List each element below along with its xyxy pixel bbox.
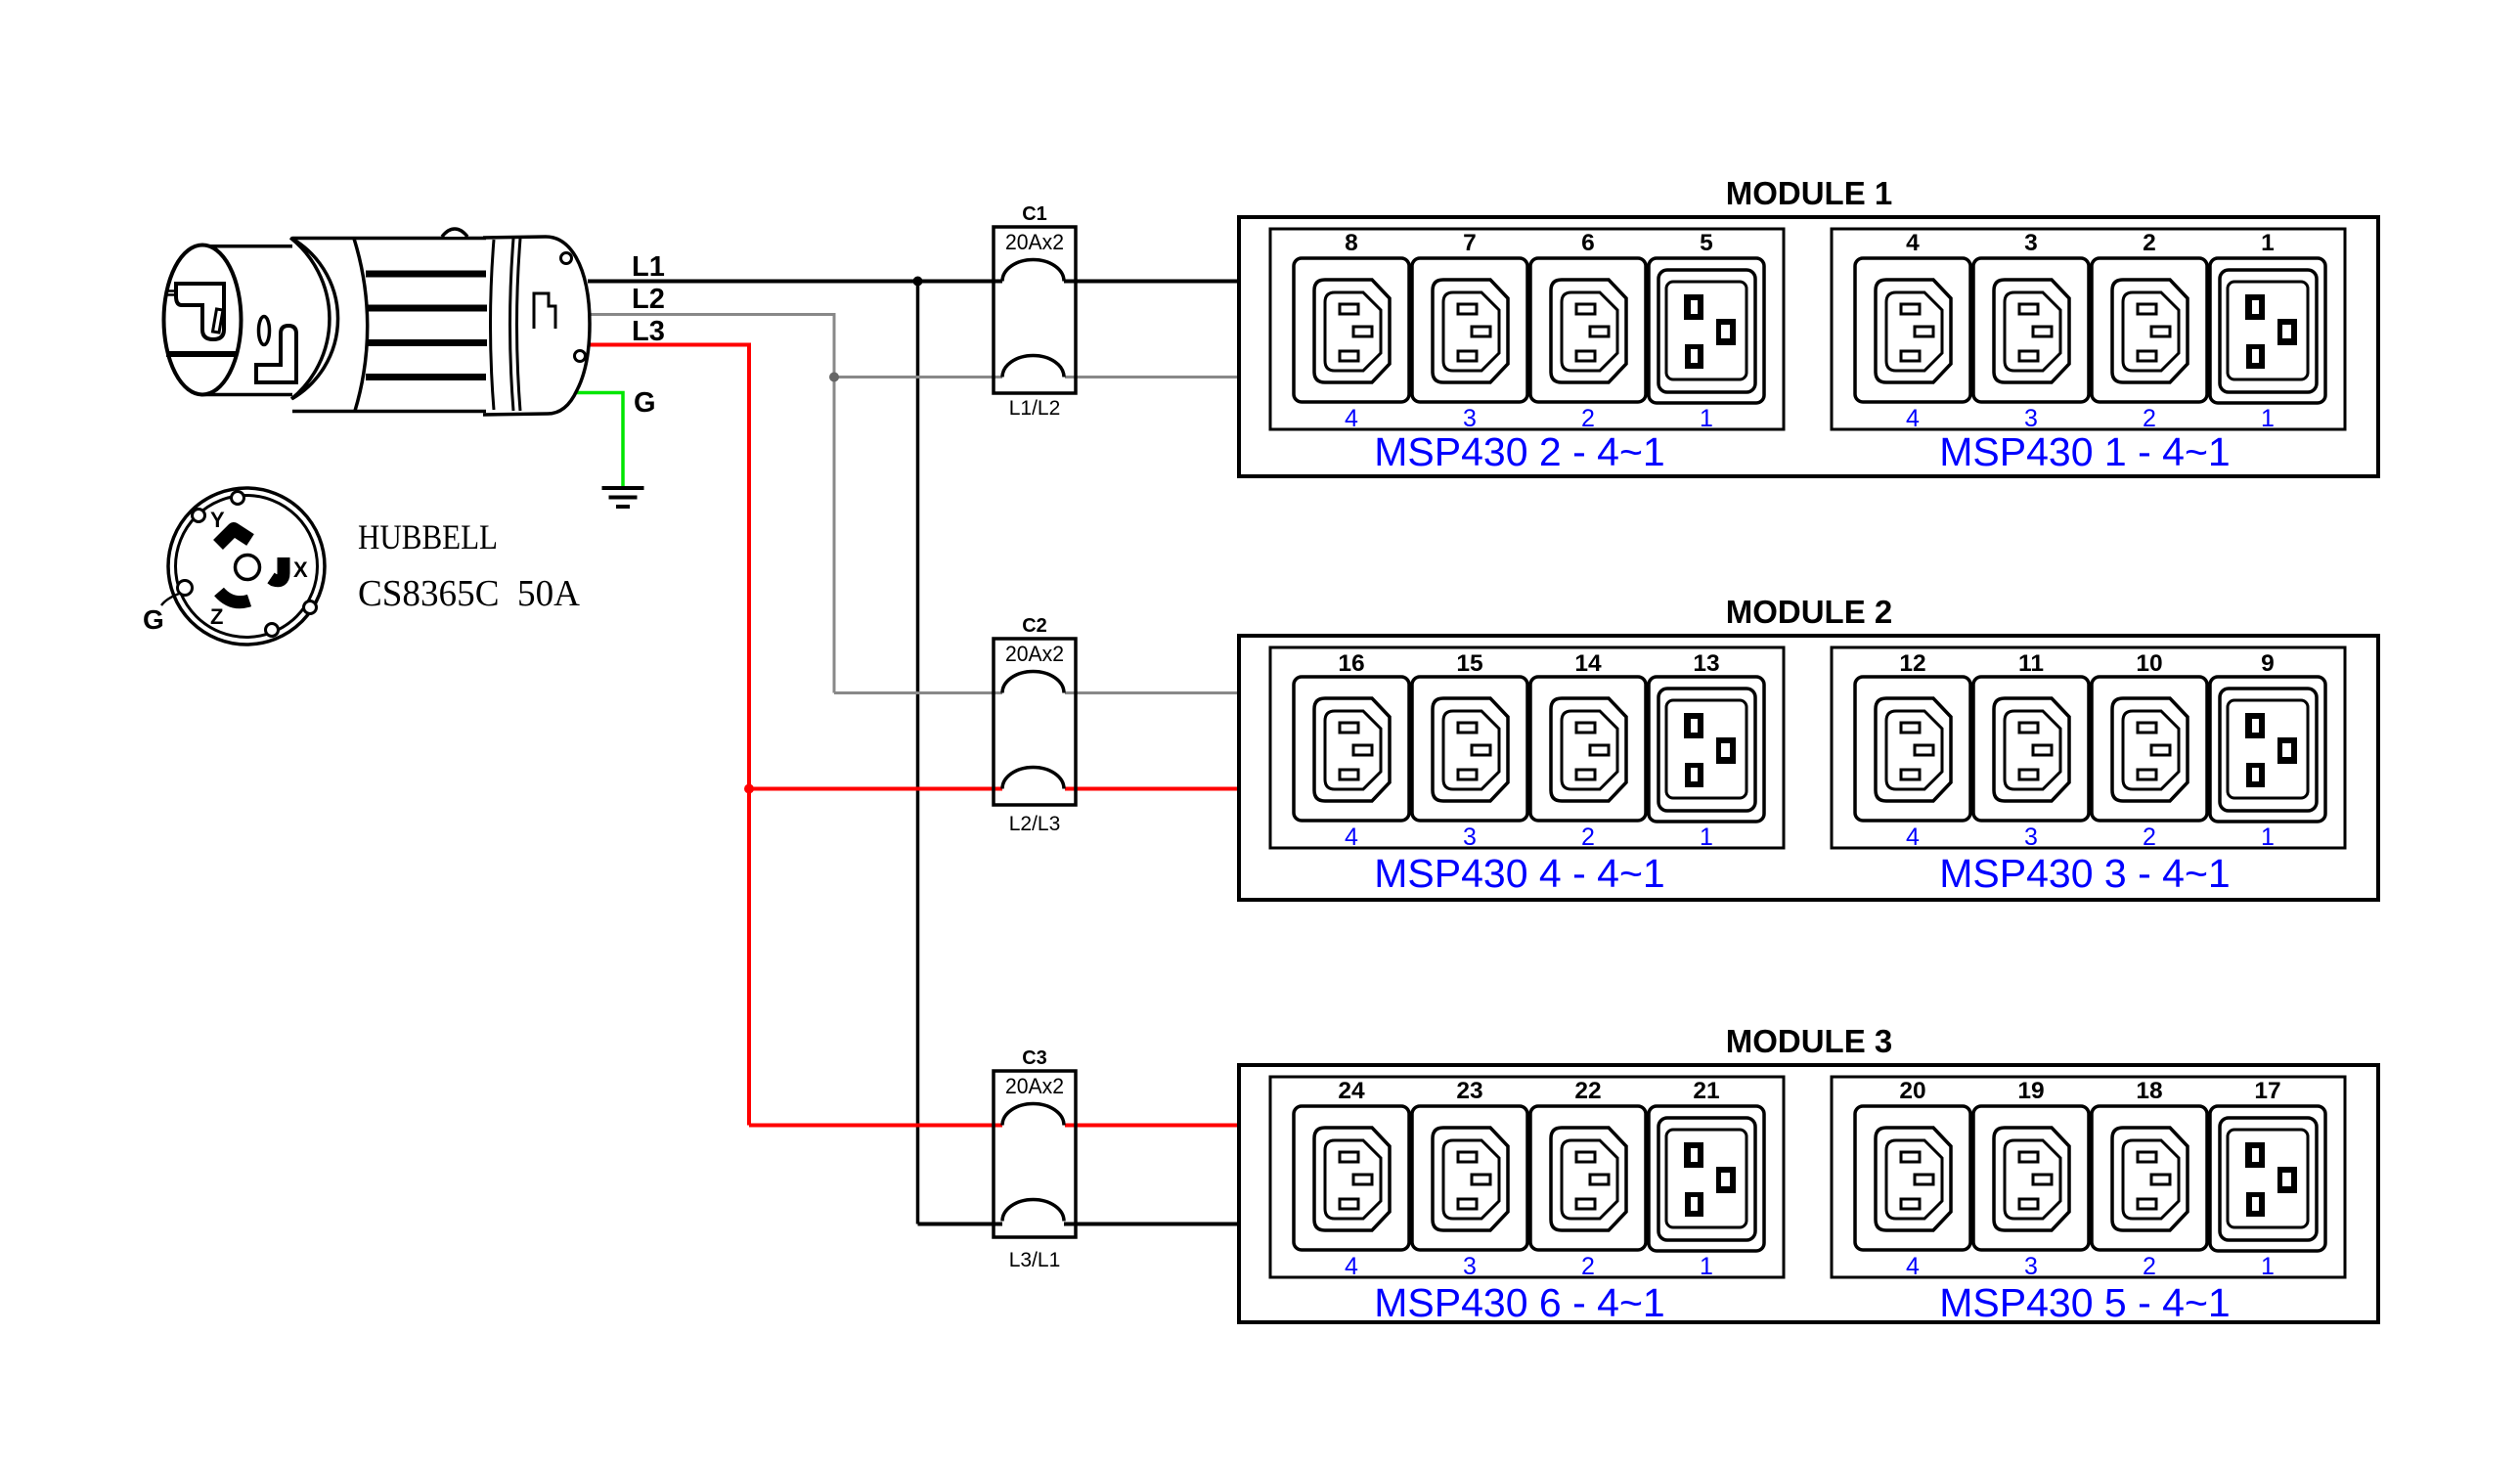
svg-text:L1: L1 xyxy=(632,251,665,283)
svg-text:CS8365C 50A: CS8365C 50A xyxy=(358,573,581,614)
svg-text:MODULE 2: MODULE 2 xyxy=(1726,594,1893,630)
svg-text:10: 10 xyxy=(2136,650,2162,677)
svg-text:7: 7 xyxy=(1463,230,1477,256)
module 3 outer box xyxy=(1239,1065,2378,1322)
plug body stripes xyxy=(366,274,487,378)
module 1 outer box xyxy=(1239,217,2378,476)
svg-text:15: 15 xyxy=(1456,650,1482,677)
svg-text:6: 6 xyxy=(1581,230,1595,256)
module 1 outlet numbers xyxy=(1345,230,2275,256)
plug face ellipse xyxy=(164,245,242,395)
svg-text:C3: C3 xyxy=(1022,1047,1047,1069)
plug collar arcs xyxy=(491,239,521,411)
wire L1 from C1 to module 1 xyxy=(1064,280,1240,284)
G leader line xyxy=(161,594,179,605)
svg-text:3: 3 xyxy=(2024,230,2038,256)
wire L1 vertical drop to C3 xyxy=(916,282,920,1224)
module 3 outlet numbers xyxy=(1338,1078,2280,1104)
module 3 right bank outlets 20-17 xyxy=(1832,1077,2345,1280)
plug cap oval hole xyxy=(259,317,270,345)
svg-text:MODULE 1: MODULE 1 xyxy=(1726,175,1893,211)
svg-text:L2/L3: L2/L3 xyxy=(1009,813,1061,835)
wire L2 from C2 to module 2 xyxy=(1065,691,1240,694)
svg-text:L1/L2: L1/L2 xyxy=(1009,397,1061,420)
face outer circle xyxy=(168,488,325,645)
plug screw hole bottom xyxy=(575,351,586,362)
plug right cap section xyxy=(483,237,590,415)
plug body left arc xyxy=(354,239,368,411)
blade labels xyxy=(210,508,308,629)
svg-text:2: 2 xyxy=(2143,230,2156,256)
svg-text:MSP430 5 - 4~1: MSP430 5 - 4~1 xyxy=(1939,1280,2230,1325)
plug cap crescent arcs xyxy=(290,238,338,399)
node L3 junction xyxy=(744,784,754,794)
svg-text:Z: Z xyxy=(210,604,223,629)
svg-text:17: 17 xyxy=(2254,1078,2280,1104)
svg-text:C1: C1 xyxy=(1022,203,1047,225)
svg-text:12: 12 xyxy=(1899,650,1925,677)
svg-text:MSP430 3 - 4~1: MSP430 3 - 4~1 xyxy=(1939,851,2230,896)
svg-text:4: 4 xyxy=(1906,230,1920,256)
node L2 junction xyxy=(829,373,839,382)
node L1 junction xyxy=(913,277,923,287)
plug face pistol slot xyxy=(176,284,224,339)
breaker C3 xyxy=(994,1047,1076,1271)
svg-text:G: G xyxy=(143,604,164,635)
blade X xyxy=(271,557,284,581)
wire L2 into C2 top xyxy=(834,691,1002,694)
svg-text:16: 16 xyxy=(1338,650,1364,677)
svg-text:HUBBELL: HUBBELL xyxy=(358,517,498,556)
svg-text:G: G xyxy=(634,387,656,419)
wire L1 from C3 to module 3 xyxy=(1064,1223,1240,1226)
svg-text:C2: C2 xyxy=(1022,615,1047,637)
plug cap band top/bottom lines xyxy=(200,246,292,395)
breaker C2 xyxy=(994,615,1076,835)
wire L2 from plug, drop at x=853 xyxy=(590,315,834,693)
svg-text:5: 5 xyxy=(1700,230,1713,256)
svg-text:L3: L3 xyxy=(632,316,665,347)
svg-text:1: 1 xyxy=(2261,230,2275,256)
plug screw hole top xyxy=(561,253,572,264)
plug top latch bump xyxy=(442,229,467,237)
svg-text:21: 21 xyxy=(1693,1078,1719,1104)
rim tab G xyxy=(178,581,193,596)
wire L2 branch to C1 bottom xyxy=(834,376,1002,378)
svg-text:MSP430 4 - 4~1: MSP430 4 - 4~1 xyxy=(1374,851,1664,896)
svg-text:14: 14 xyxy=(1574,650,1602,677)
module 2 right bank outlets 12-9 xyxy=(1832,647,2345,851)
module 2 outlet numbers xyxy=(1338,650,2274,677)
svg-text:8: 8 xyxy=(1345,230,1358,256)
plug body cylinder xyxy=(291,239,486,410)
svg-text:L2: L2 xyxy=(632,284,665,315)
svg-text:MODULE 3: MODULE 3 xyxy=(1726,1023,1893,1059)
svg-text:22: 22 xyxy=(1574,1078,1601,1104)
svg-text:Y: Y xyxy=(210,508,225,532)
wire labels xyxy=(632,251,665,419)
svg-text:11: 11 xyxy=(2018,650,2044,677)
module 1 right bank outlets 4-1 xyxy=(1832,229,2345,432)
center hole xyxy=(236,556,260,580)
svg-text:20: 20 xyxy=(1899,1078,1925,1104)
svg-text:X: X xyxy=(293,557,308,582)
svg-text:L3/L1: L3/L1 xyxy=(1009,1249,1061,1271)
module 2 left bank outlets 16-13 xyxy=(1270,647,1784,851)
ground xyxy=(602,488,644,507)
wire L3 from plug, drop at x=766 xyxy=(590,345,749,1126)
rim notch upper-left xyxy=(193,510,205,522)
svg-text:24: 24 xyxy=(1338,1078,1365,1104)
rim notch top xyxy=(232,492,244,505)
svg-text:MSP430 2 - 4~1: MSP430 2 - 4~1 xyxy=(1374,429,1664,474)
plug locking notch xyxy=(534,293,555,329)
wire L3 from C3 to module 3 xyxy=(1065,1124,1240,1128)
wire L3 branch to C2 bottom xyxy=(749,787,1002,791)
wire L1 into C3 bottom xyxy=(918,1223,1003,1226)
svg-text:19: 19 xyxy=(2017,1078,2044,1104)
breaker C1 xyxy=(994,203,1076,420)
wire L2 from C1 to module 1 xyxy=(1065,376,1240,378)
wire L3 into C3 top xyxy=(749,1124,1002,1128)
module 2 outer box xyxy=(1239,636,2378,900)
svg-text:23: 23 xyxy=(1456,1078,1482,1104)
svg-text:13: 13 xyxy=(1693,650,1719,677)
wire G green xyxy=(573,393,623,487)
blade Y xyxy=(218,529,250,545)
svg-text:MSP430 6 - 4~1: MSP430 6 - 4~1 xyxy=(1374,1280,1664,1325)
wire L1 horizontal from plug to breaker C1 xyxy=(588,280,1002,284)
plug cap boot slot xyxy=(256,326,296,382)
svg-text:9: 9 xyxy=(2261,650,2275,677)
blade Z xyxy=(219,592,249,602)
rim notch right xyxy=(304,601,317,614)
plug face bottom ridge xyxy=(166,351,236,357)
wire L3 from C2 to module 2 xyxy=(1065,787,1240,791)
svg-text:18: 18 xyxy=(2136,1078,2162,1104)
svg-text:MSP430 1 - 4~1: MSP430 1 - 4~1 xyxy=(1939,429,2230,474)
module 3 left bank outlets 24-21 xyxy=(1270,1077,1784,1280)
face inner circle xyxy=(176,496,318,638)
module 1 left bank outlets 8-5 xyxy=(1270,229,1784,432)
rim notch bottom-right xyxy=(266,624,279,637)
